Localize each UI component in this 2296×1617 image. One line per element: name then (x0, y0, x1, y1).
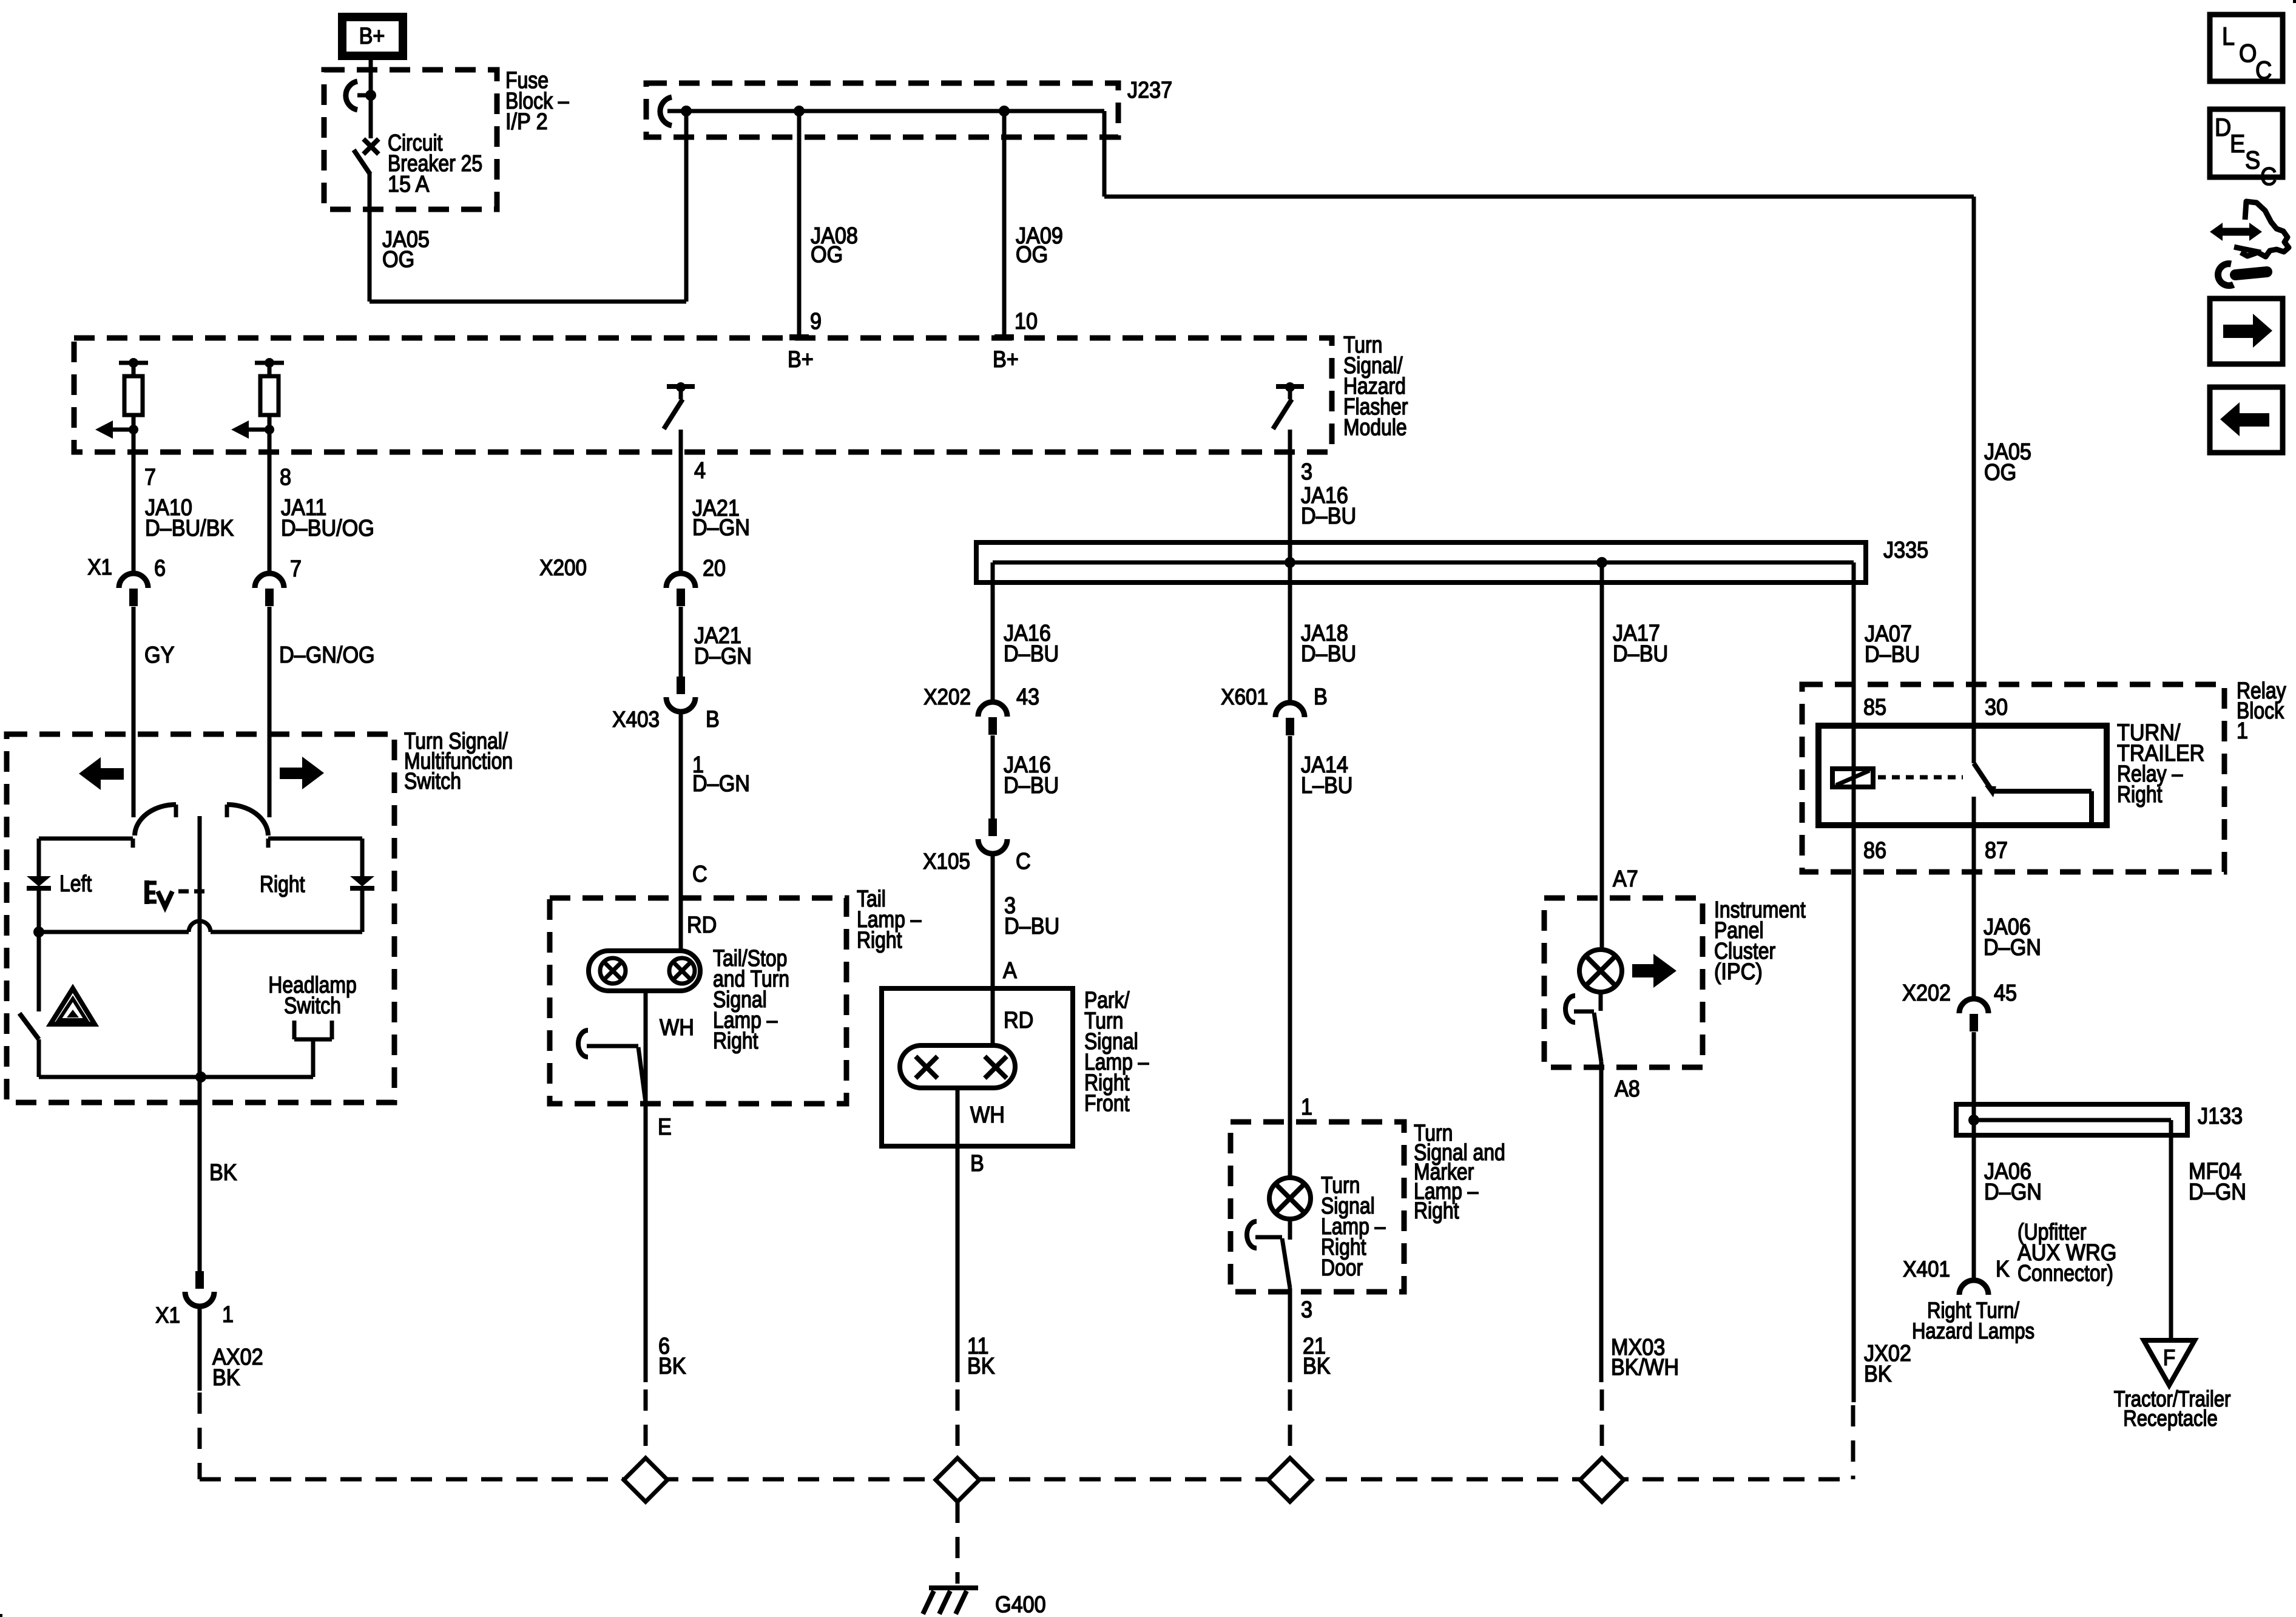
connector X202-43 (978, 702, 1007, 717)
svg-text:J237: J237 (1127, 76, 1172, 103)
wire 3 D-BU (991, 854, 995, 1045)
connector X200-20 (666, 573, 695, 588)
page corner mark top right (2293, 0, 2296, 3)
wire JA05 top run to relay (1102, 111, 1107, 197)
wire 21 BK dashed (1288, 1389, 1292, 1459)
svg-text:G400: G400 (995, 1591, 1046, 1617)
wire D-GN/OG (268, 607, 272, 817)
wire JA17 (1600, 562, 1604, 950)
relay switch blade (1972, 726, 1976, 763)
connector hook at fuse block (346, 81, 357, 110)
svg-text:GY: GY (144, 641, 174, 667)
svg-text:F: F (2163, 1345, 2175, 1370)
svg-text:X202: X202 (923, 684, 971, 709)
svg-text:B+: B+ (359, 22, 385, 49)
svg-text:D–GN/OG: D–GN/OG (279, 641, 375, 667)
svg-text:D–GN: D–GN (692, 770, 750, 796)
svg-text:3: 3 (1301, 458, 1312, 484)
wire 1 D-GN (679, 712, 683, 951)
svg-text:B+: B+ (993, 346, 1019, 372)
svg-text:BK: BK (212, 1364, 240, 1390)
power feed B+ symbol (342, 17, 403, 56)
relay pin87 stub (1972, 797, 1976, 825)
svg-text:7: 7 (290, 555, 302, 581)
wire JA14 L-BU (1288, 736, 1292, 1178)
wire GY (132, 607, 136, 817)
svg-text:D–GN: D–GN (1984, 934, 2041, 960)
svg-text:BK/WH: BK/WH (1611, 1354, 1679, 1380)
svg-text:Door: Door (1321, 1255, 1363, 1280)
svg-text:X403: X403 (612, 707, 660, 732)
svg-text:C: C (2255, 56, 2272, 84)
svg-text:D–GN: D–GN (694, 643, 752, 669)
svg-text:1: 1 (2237, 717, 2248, 743)
icon right arrow box (2210, 299, 2283, 364)
svg-text:D–BU/OG: D–BU/OG (281, 515, 374, 541)
svg-text:BK: BK (1303, 1352, 1331, 1379)
svg-text:9: 9 (810, 308, 822, 334)
svg-text:D–BU: D–BU (1613, 640, 1668, 666)
svg-text:B: B (706, 706, 720, 732)
svg-text:3: 3 (1301, 1296, 1312, 1322)
wire JA21 pin4 (679, 452, 683, 572)
svg-text:D–BU: D–BU (1004, 913, 1059, 939)
svg-text:L–BU: L–BU (1301, 772, 1353, 798)
svg-text:7: 7 (144, 464, 156, 490)
svg-text:D–GN: D–GN (1984, 1178, 2042, 1204)
wire AX02 BK (198, 1306, 202, 1391)
svg-text:Receptacle: Receptacle (2123, 1406, 2217, 1431)
wire JA16 to X202 (991, 562, 995, 702)
park turn signal lamp right front box (882, 988, 1073, 1146)
svg-text:6: 6 (154, 555, 166, 581)
svg-text:Right: Right (857, 927, 902, 953)
svg-text:OG: OG (1984, 459, 2016, 485)
svg-text:BK: BK (209, 1159, 237, 1185)
wire JA08 (797, 111, 802, 337)
svg-text:C: C (1016, 848, 1031, 874)
door lamp bulb (1269, 1178, 1311, 1219)
tail stop lamp bulb (589, 951, 700, 991)
svg-text:X401: X401 (1903, 1257, 1950, 1281)
wire JX02 dashed (1851, 1405, 1855, 1479)
svg-text:A8: A8 (1615, 1075, 1640, 1101)
svg-text:20: 20 (703, 555, 726, 581)
connector X401-K ring (1959, 1280, 1988, 1295)
splice pack J237 dashed box (646, 83, 1118, 137)
wire MF04 (2169, 1120, 2173, 1340)
icon left arrow box (2210, 387, 2283, 453)
svg-text:Switch: Switch (284, 993, 341, 1018)
svg-text:BK: BK (967, 1352, 995, 1379)
connector X1-7 (255, 573, 284, 588)
svg-text:D–BU: D–BU (1301, 640, 1356, 666)
left diode (27, 876, 51, 886)
wire JA06 from relay 87 (1972, 825, 1976, 999)
svg-text:Module: Module (1343, 414, 1407, 440)
svg-text:D: D (2215, 113, 2231, 141)
park lamp bulb (900, 1045, 1015, 1088)
wire 11 BK dashed (956, 1389, 960, 1459)
svg-text:OG: OG (382, 246, 414, 272)
wire BK (198, 1077, 202, 1271)
wire JA18 (1288, 562, 1292, 703)
bus wire in J335 (993, 561, 1854, 565)
junction dot JA05 riser (681, 106, 692, 116)
svg-text:Right: Right (713, 1028, 758, 1053)
svg-text:30: 30 (1985, 694, 2008, 720)
arrow out pin7 (112, 428, 133, 432)
relay fixed contact (1993, 789, 2092, 794)
wire B+ to breaker (369, 60, 373, 97)
splice diamond 11BK (936, 1458, 979, 1502)
svg-text:L: L (2222, 22, 2235, 50)
flasher resistor pin7 (119, 361, 148, 365)
splice diamond 21BK (1268, 1458, 1312, 1502)
wire JA16 pin3 (1288, 452, 1292, 562)
wire B park lamp (956, 1088, 960, 1146)
svg-text:O: O (2239, 39, 2257, 67)
svg-text:D–BU: D–BU (1004, 772, 1059, 798)
svg-text:1: 1 (222, 1301, 234, 1327)
svg-text:RD: RD (687, 911, 717, 937)
splice diamond MX03 (1580, 1458, 1624, 1502)
svg-text:S: S (2245, 146, 2260, 174)
junction dot J335 JA17 (1596, 557, 1607, 568)
svg-text:B+: B+ (788, 346, 814, 372)
bottom wire in switch (39, 1075, 313, 1079)
svg-text:RD: RD (1004, 1007, 1033, 1033)
wire 21 BK (1288, 1288, 1292, 1382)
svg-text:Front: Front (1084, 1090, 1130, 1116)
ipc switch (1599, 992, 1603, 1011)
ground G400 (929, 1585, 978, 1590)
wire WH tail lamp (644, 991, 648, 1104)
svg-text:43: 43 (1016, 683, 1039, 709)
flasher switch pin3 (1276, 384, 1304, 389)
wire MX03 (1599, 1062, 1604, 1382)
svg-text:WH: WH (660, 1014, 694, 1040)
svg-text:I/P 2: I/P 2 (505, 108, 548, 134)
ground bus dashed wire (200, 1477, 1853, 1482)
left turn arrow (79, 757, 124, 790)
junction dot J133 (1968, 1115, 1979, 1126)
svg-text:B: B (1314, 683, 1328, 709)
right turn arrow (280, 757, 324, 789)
ipc indicator bulb (1579, 950, 1622, 992)
svg-text:D–BU: D–BU (1004, 640, 1059, 666)
svg-text:X1: X1 (87, 555, 112, 579)
wire JA05 from breaker (368, 172, 372, 302)
svg-text:Left: Left (59, 871, 92, 896)
svg-text:D–BU/BK: D–BU/BK (145, 515, 234, 541)
left switch contact arc (174, 805, 178, 817)
cross wire with hop (39, 930, 189, 934)
bus wire in J133 (1974, 1118, 2171, 1122)
svg-text:85: 85 (1863, 694, 1886, 720)
icon DESC box (2210, 109, 2283, 177)
svg-text:OG: OG (1016, 241, 1048, 267)
bus wire in J237 (667, 109, 1104, 113)
svg-text:X105: X105 (923, 849, 970, 874)
circuit breaker 25 contact X (369, 95, 373, 138)
right switch contact arc (225, 805, 229, 817)
turn signal multifunction switch dashed box (7, 734, 394, 1102)
svg-text:D–GN: D–GN (692, 514, 750, 540)
connector X105-C (988, 819, 997, 836)
junction dot JA08 (794, 106, 805, 116)
svg-text:Right: Right (1414, 1198, 1459, 1223)
relay block dashed box (1802, 684, 2224, 872)
svg-text:X200: X200 (539, 555, 587, 580)
connector hook J237 (660, 97, 672, 126)
svg-text:WH: WH (970, 1101, 1005, 1127)
svg-text:86: 86 (1863, 837, 1886, 863)
svg-text:Hazard Lamps: Hazard Lamps (1912, 1319, 2034, 1344)
connector X1-1 (195, 1271, 204, 1289)
svg-text:45: 45 (1994, 979, 2017, 1005)
svg-text:D–BU: D–BU (1865, 641, 1920, 667)
hazard triangle symbol (50, 988, 95, 1024)
instrument panel cluster dashed box (1544, 898, 1703, 1067)
circuit breaker blade (354, 150, 370, 174)
svg-text:J335: J335 (1883, 536, 1928, 562)
relay coil (1852, 726, 1856, 825)
splice diamond 6BK (624, 1458, 667, 1502)
svg-text:C: C (2260, 163, 2277, 191)
wire JA06 to J133 (1972, 1032, 1976, 1120)
junction dot switch pole (195, 1072, 206, 1082)
junction dot breaker top (365, 90, 376, 101)
svg-text:8: 8 (280, 464, 291, 490)
connector X1-6 (119, 573, 148, 588)
svg-text:15 A: 15 A (388, 170, 430, 197)
splice pack J335 box (976, 542, 1866, 582)
icon wrench diagnostic (2220, 228, 2252, 236)
hazard switch blade (19, 1013, 39, 1039)
arrow out pin8 (248, 428, 269, 432)
svg-text:4: 4 (694, 457, 706, 483)
connector X202-45 (1959, 999, 1988, 1013)
page corner mark bottom left (0, 1614, 2, 1617)
ipc turn arrow (1632, 954, 1676, 988)
svg-text:Connector): Connector) (2017, 1260, 2113, 1286)
wire JA11 (268, 452, 272, 573)
svg-text:(IPC): (IPC) (1714, 958, 1763, 984)
wire 6 BK (644, 1104, 648, 1382)
svg-text:A7: A7 (1613, 865, 1638, 891)
svg-text:Switch: Switch (404, 768, 461, 794)
junction dot left branch (33, 927, 44, 937)
icon LOC box (2210, 15, 2283, 81)
turn trailer relay body (1818, 726, 2107, 825)
connector X601-B (1275, 703, 1305, 717)
svg-text:1: 1 (1301, 1093, 1312, 1119)
turn signal hazard flasher module dashed box (74, 338, 1332, 452)
connector X403-B (677, 677, 685, 694)
wire JA16 to X105 (991, 735, 995, 819)
wire JA10 (132, 452, 136, 573)
wire JA21 mid (679, 607, 683, 677)
svg-text:A: A (1003, 957, 1018, 983)
svg-text:K: K (1996, 1255, 2010, 1281)
wire JA06 to X401 (1972, 1120, 1976, 1281)
flasher switch pin4 (667, 384, 695, 389)
svg-text:Right: Right (260, 871, 305, 897)
wire JX02 BK (1852, 825, 1856, 1402)
tail lamp door switch (578, 1030, 588, 1057)
wire AX02 dashed (198, 1393, 202, 1479)
turn signal lamp right door dashed box (1231, 1122, 1404, 1292)
svg-text:B: B (970, 1150, 984, 1176)
right diode (350, 876, 374, 886)
svg-text:C: C (692, 860, 707, 886)
switch pole wire (198, 816, 202, 1077)
svg-text:X601: X601 (1221, 684, 1268, 709)
left branch wire (39, 837, 133, 841)
svg-text:BK: BK (1864, 1360, 1892, 1386)
wire JA07 (1852, 562, 1856, 726)
flasher resistor pin8 (255, 361, 284, 365)
wire MX03 dashed (1600, 1389, 1604, 1459)
svg-text:E: E (658, 1113, 672, 1139)
svg-text:BK: BK (658, 1352, 686, 1379)
junction dot J335 pin3 (1285, 557, 1295, 568)
wire JA09 (1002, 111, 1007, 337)
tractor trailer receptacle terminal F (2144, 1340, 2195, 1385)
tail lamp right dashed box (550, 898, 846, 1104)
svg-text:OG: OG (811, 241, 843, 267)
svg-text:D–BU: D–BU (1301, 502, 1356, 528)
svg-text:10: 10 (1015, 308, 1038, 334)
right branch wire (268, 837, 362, 841)
relay linkage dashed (1878, 775, 1963, 780)
svg-text:D–GN: D–GN (2189, 1178, 2246, 1204)
mechanical link Ev symbol (144, 880, 149, 904)
svg-text:Right: Right (2117, 781, 2163, 807)
fuse block dashed box (324, 70, 497, 209)
svg-text:J133: J133 (2198, 1102, 2243, 1129)
junction dot JA09 (999, 106, 1010, 116)
headlamp switch symbol (292, 1021, 297, 1039)
wire 6 BK dashed (644, 1389, 648, 1459)
door lamp switch (1288, 1219, 1292, 1240)
svg-text:X202: X202 (1902, 979, 1951, 1005)
svg-text:X1: X1 (155, 1303, 180, 1328)
svg-text:87: 87 (1985, 837, 2008, 863)
svg-text:E: E (2230, 130, 2245, 158)
splice pack J133 box (1956, 1104, 2187, 1135)
ground stub dashed (956, 1502, 960, 1584)
